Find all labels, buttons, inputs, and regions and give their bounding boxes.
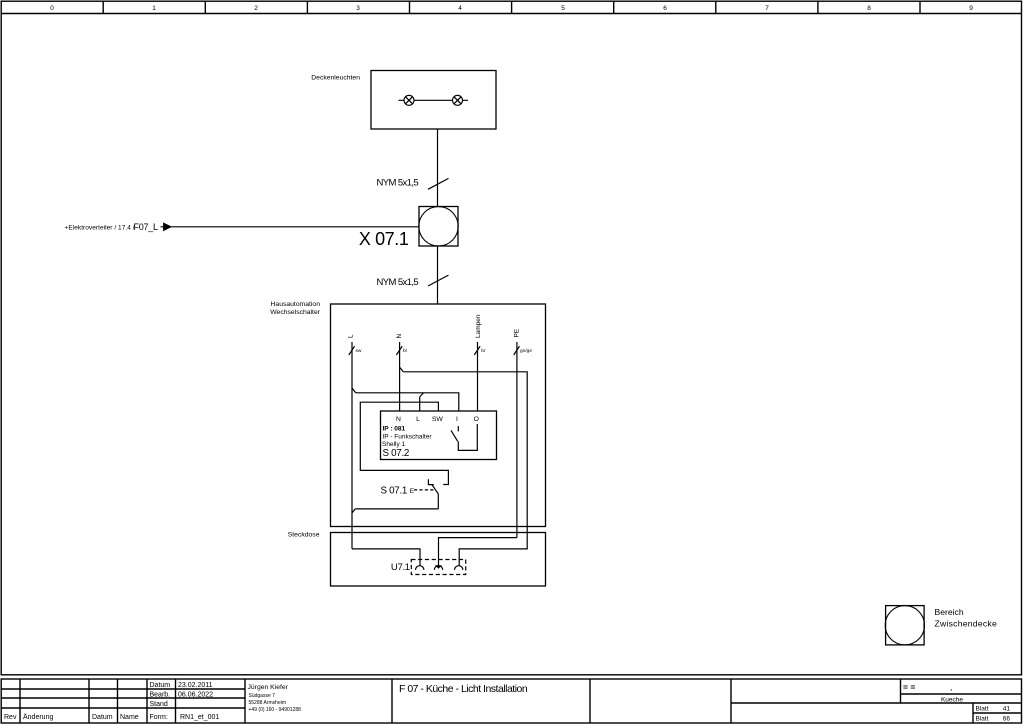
socket contact N (455, 566, 463, 570)
N branch jog (400, 367, 404, 372)
svg-text:Blatt: Blatt (976, 716, 989, 723)
switch actuator dashed (414, 489, 435, 491)
wire PE to socket (439, 538, 517, 566)
sheet number 41 (976, 706, 1011, 713)
svg-text:,: , (950, 682, 952, 692)
svg-text:Änderung: Änderung (23, 713, 53, 721)
wire lamp bus (399, 99, 469, 101)
svg-text:55288 Armsheim: 55288 Armsheim (249, 700, 287, 706)
header column numbers (50, 5, 973, 12)
title block vertical dividers (20, 679, 973, 723)
svg-text:Südgasse 7: Südgasse 7 (249, 693, 276, 699)
wire Lampen (477, 342, 479, 411)
svg-text:= =: = = (903, 682, 915, 692)
TITLEBLOCK (1, 679, 1021, 723)
svg-text:Name: Name (120, 714, 139, 721)
svg-text:0: 0 (50, 5, 54, 12)
title block outer box (1, 679, 1021, 723)
wire to L terminal (419, 397, 421, 411)
switch branch horizontal (355, 508, 438, 510)
svg-text:06.06.2022: 06.06.2022 (178, 692, 213, 699)
switch slash N (396, 346, 402, 355)
svg-text:3: 3 (356, 5, 360, 12)
svg-text:F 07 - Küche - Licht Installat: F 07 - Küche - Licht Installation (399, 683, 528, 695)
svg-text:L: L (348, 334, 355, 338)
svg-text:Shelly 1: Shelly 1 (382, 441, 406, 448)
wire feed from distribution (161, 226, 420, 228)
svg-text:NYM 5x1,5: NYM 5x1,5 (377, 277, 419, 288)
svg-text:S 07.2: S 07.2 (383, 448, 410, 459)
wire SW terminal to switch (360, 402, 448, 484)
title block horizontal dividers (1, 689, 1021, 713)
switch S07.1 moving contact hook (428, 479, 433, 484)
wire X07.1 to automation box (437, 246, 439, 304)
svg-text:IP - Funkschalter: IP - Funkschalter (383, 433, 433, 440)
L branch jog (352, 388, 356, 393)
svg-text:Steckdose: Steckdose (288, 532, 320, 539)
relay output path (458, 424, 477, 450)
svg-text:23.02.2011: 23.02.2011 (178, 682, 213, 689)
svg-text:NYM 5x1,5: NYM 5x1,5 (377, 178, 419, 189)
area symbol Zwischendecke (885, 606, 924, 645)
cable slash upper (428, 178, 449, 189)
terminal labels N L SW I O (396, 416, 479, 423)
svg-text:Rev: Rev (4, 714, 17, 721)
svg-text:+Elektroverteiler / 17.4 /: +Elektroverteiler / 17.4 / (65, 225, 135, 232)
relay blade (451, 430, 458, 441)
svg-text:Wechselschalter: Wechselschalter (270, 309, 320, 316)
svg-text:Stand: Stand (150, 701, 168, 708)
svg-text:9: 9 (969, 5, 973, 12)
wire lamps to X07.1 (437, 129, 439, 207)
svg-text:SW: SW (432, 416, 444, 423)
svg-text:Deckenleuchten: Deckenleuchten (311, 75, 360, 82)
header ruler line (1, 13, 1021, 15)
svg-text:L: L (416, 416, 420, 423)
svg-text:F07_L: F07_L (134, 222, 159, 232)
wire L branch to relay (356, 393, 459, 411)
svg-text:IP : 081: IP : 081 (383, 425, 406, 432)
switch slash L (349, 346, 355, 355)
author block (248, 684, 302, 713)
socket contact PE (434, 566, 442, 570)
svg-text:gn/ge: gn/ge (520, 348, 532, 354)
svg-text:+49 (0) 160 - 94901288: +49 (0) 160 - 94901288 (249, 707, 302, 713)
cable slash lower (428, 275, 449, 286)
relay I stub (457, 426, 459, 431)
svg-text:Bearb.: Bearb. (150, 692, 171, 699)
relay device box S07.2 (381, 411, 497, 460)
wire N branch to socket (403, 372, 527, 566)
svg-text:N: N (396, 416, 401, 423)
svg-text:41: 41 (1003, 706, 1011, 713)
L terminal branch jog (420, 393, 424, 397)
svg-text:Form:: Form: (150, 714, 168, 721)
svg-text:Datum: Datum (92, 714, 113, 721)
junction box X07.1 (419, 207, 458, 247)
svg-text:N: N (396, 334, 403, 339)
svg-text:U7.1: U7.1 (391, 562, 410, 573)
svg-text:Bereich: Bereich (935, 607, 964, 617)
wire L (351, 342, 353, 549)
lamp E1 (404, 95, 414, 105)
svg-text:E: E (410, 488, 415, 495)
svg-text:PE: PE (514, 328, 521, 337)
svg-text:O: O (474, 416, 479, 423)
svg-text:2: 2 (254, 5, 258, 12)
ceiling lights box (371, 71, 496, 130)
header column ticks (103, 1, 920, 13)
svg-text:br: br (481, 348, 486, 354)
switch slash PE (514, 346, 520, 355)
switch slash Lampen (474, 346, 480, 355)
label Hausautomation Wechselschalter (270, 301, 320, 316)
svg-text:6: 6 (663, 5, 667, 12)
svg-text:5: 5 (561, 5, 565, 12)
socket box (331, 533, 546, 587)
date fields (150, 682, 220, 721)
svg-text:Datum: Datum (150, 682, 171, 689)
svg-text:7: 7 (765, 5, 769, 12)
svg-text:RN1_et_001: RN1_et_001 (180, 714, 219, 721)
sheet count 66 (976, 716, 1011, 723)
svg-text:Lampen: Lampen (475, 314, 482, 338)
svg-text:Jürgen Kiefer: Jürgen Kiefer (248, 684, 289, 691)
socket contact L (416, 566, 424, 570)
svg-text:Kueche: Kueche (941, 697, 963, 704)
revision row labels (4, 713, 139, 721)
svg-text:X 07.1: X 07.1 (359, 229, 409, 249)
svg-text:8: 8 (867, 5, 871, 12)
wire PE (516, 342, 518, 538)
svg-text:S 07.1: S 07.1 (381, 486, 408, 497)
switch branch jog (352, 509, 355, 513)
svg-text:Zwischendecke: Zwischendecke (935, 618, 997, 628)
switch S07.1 blade (432, 485, 438, 494)
wire switch to L junction (437, 494, 439, 509)
label Bereich Zwischendecke (935, 607, 997, 629)
svg-text:sw: sw (356, 349, 362, 354)
socket PE wedge (435, 565, 442, 568)
svg-text:I: I (456, 416, 458, 423)
svg-text:66: 66 (1003, 716, 1011, 723)
lamp E2 (453, 95, 463, 105)
wire L to socket (352, 549, 420, 566)
socket U7.1 dashed outline (411, 560, 465, 575)
feed arrow head (164, 223, 171, 230)
automation box (331, 304, 546, 527)
svg-text:Blatt: Blatt (976, 706, 989, 713)
wire N (399, 342, 401, 411)
svg-text:1: 1 (152, 5, 156, 12)
svg-text:4: 4 (458, 5, 462, 12)
svg-text:Hausautomation: Hausautomation (271, 301, 321, 308)
svg-text:bl: bl (403, 348, 407, 354)
